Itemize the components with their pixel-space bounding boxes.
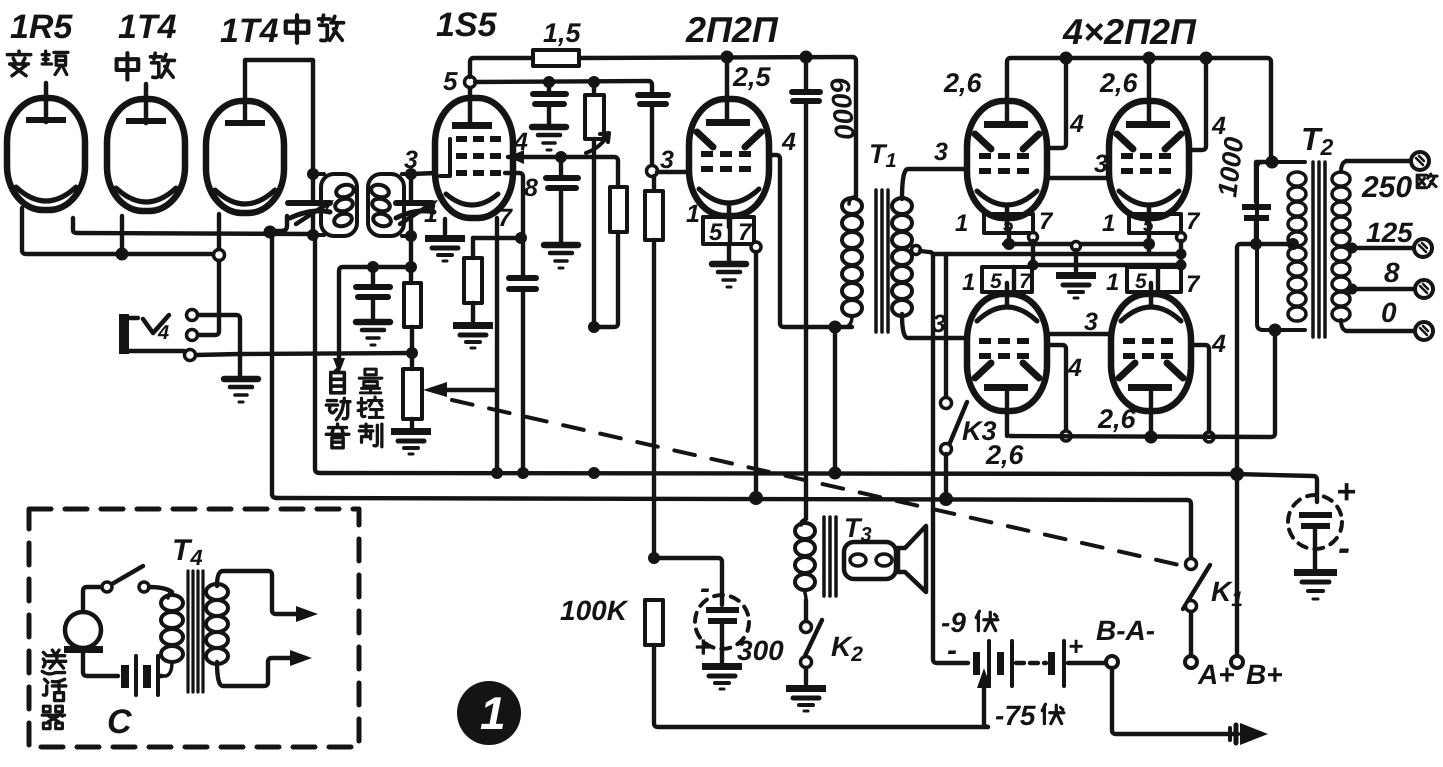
transformer T3 coil	[795, 519, 815, 600]
switch K3 riser	[944, 254, 948, 397]
socket box 5-7 2P2P	[703, 217, 754, 246]
pin circle TR pin7	[1177, 233, 1186, 242]
wire filament junction line3	[1033, 263, 1181, 267]
wire TR stem to line1	[1147, 229, 1151, 254]
capacitor AVC filter	[356, 267, 390, 320]
svg-text:7: 7	[738, 219, 753, 246]
svg-text:T1: T1	[869, 139, 897, 172]
jack contact 2	[187, 330, 198, 341]
svg-text:0: 0	[1381, 297, 1397, 328]
tube V7 2P2P TR	[1109, 101, 1189, 229]
dashed link volume to K1	[452, 400, 1188, 567]
wire T1 sec top to grids	[902, 169, 964, 199]
svg-text:4: 4	[1069, 110, 1084, 138]
wire AVC branch left	[339, 267, 411, 364]
svg-text:1: 1	[480, 687, 506, 739]
node dot B-V2	[116, 248, 129, 261]
wire center tap to filament line	[920, 251, 968, 663]
wire T4 sec bottom output	[217, 658, 292, 686]
node dot volume top	[588, 321, 600, 333]
terminal 125	[1414, 239, 1432, 257]
node dot T2 top	[1266, 156, 1279, 169]
pin circle 2P2P pin7	[751, 242, 761, 252]
ground pin4 cap	[544, 245, 578, 268]
resistor 1.5	[533, 50, 579, 66]
svg-text:1: 1	[1102, 210, 1115, 237]
ground potentiometer	[391, 428, 431, 454]
node dot cap1000 tap	[1250, 238, 1262, 250]
terminal 8	[1415, 280, 1433, 298]
svg-text:2П2П: 2П2П	[685, 9, 779, 50]
capacitor coupling C to 2P2P	[638, 95, 668, 165]
node dot TL pin7 line3	[1028, 260, 1039, 271]
wire T2 center tap	[1237, 244, 1293, 656]
tube V4 1S5	[435, 88, 513, 218]
wire BR pin4	[1194, 345, 1209, 432]
label -9伏	[941, 607, 998, 638]
wire battery to B-A- terminal	[1068, 661, 1105, 665]
socket box BR	[1127, 267, 1181, 293]
label 250欧	[1361, 171, 1437, 204]
wire BL plate stem	[1005, 390, 1009, 436]
wire pin7 resistor branch	[473, 236, 523, 240]
svg-text:1S5: 1S5	[436, 6, 498, 44]
svg-text:7: 7	[1186, 271, 1201, 298]
svg-text:2,6: 2,6	[1097, 404, 1137, 434]
switch mic contact right	[139, 582, 149, 592]
svg-text:1000: 1000	[1212, 135, 1249, 198]
ground 2P2P	[712, 264, 746, 287]
svg-text:1,5: 1,5	[543, 18, 582, 48]
tube V3 1T4	[206, 101, 284, 213]
transformer T3 core	[824, 517, 836, 596]
label 送话器	[42, 650, 66, 729]
svg-text:A+: A+	[1197, 659, 1235, 690]
wire grid jumper bottom	[1050, 332, 1110, 336]
svg-text:-75: -75	[995, 700, 1036, 731]
label 变频	[7, 51, 68, 76]
wire V3 plate to IF transformer	[245, 60, 313, 174]
wire T1 bottom to bus1	[833, 327, 837, 473]
battery C plates	[121, 656, 158, 695]
IF transformer primary trimmer C	[288, 174, 334, 235]
jack contact 3	[185, 350, 196, 361]
label AVC 自动音量控制	[326, 369, 383, 448]
tube V5 2P2P	[689, 99, 769, 227]
wire tap 0	[1346, 329, 1413, 333]
pin circle 2P2P grid	[647, 166, 658, 177]
wire TL stem to line1	[1007, 229, 1011, 244]
node dot C523 bus1	[517, 467, 529, 479]
wire pin5 to top bus	[470, 58, 533, 77]
wire 1S5 pin8	[505, 173, 523, 238]
node dot A-V3	[264, 226, 277, 239]
tube V2 1T4	[107, 84, 185, 211]
transformer T4 secondary	[206, 584, 228, 664]
ground 300 cap	[702, 663, 742, 689]
wire plate bus top	[1007, 58, 1271, 162]
svg-text:7: 7	[1039, 208, 1054, 235]
wire bus1 B+ line	[315, 237, 1317, 502]
IF secondary trimmer C	[396, 174, 438, 236]
speaker cone	[898, 526, 926, 592]
wire V2 bottom stem	[120, 216, 124, 250]
resistor grid leak R654	[645, 176, 663, 556]
wire mic to battery C	[83, 648, 118, 676]
wire K1 to A+	[1189, 612, 1193, 655]
wire filament junction line1	[1004, 242, 1151, 246]
transformer T1 primary	[839, 196, 862, 327]
arrow pot R594	[586, 133, 609, 153]
node dot B+ bus1	[1230, 467, 1244, 481]
node dot volume bus1	[588, 467, 600, 479]
node dot TL pin4 bus	[1060, 52, 1073, 65]
transformer T1 core	[876, 190, 888, 332]
wire screen bus y82	[475, 81, 652, 92]
svg-text:T4: T4	[172, 534, 203, 570]
svg-text:1T4: 1T4	[118, 8, 177, 46]
svg-text:5: 5	[1135, 270, 1147, 293]
node dot IF sec bottom	[405, 230, 417, 242]
svg-text:1: 1	[424, 200, 438, 228]
resistor AVC R1	[404, 283, 421, 369]
wire TL pin7 stub	[1031, 241, 1035, 265]
arrowhead wiper	[423, 382, 447, 397]
ground electrolytic	[1294, 569, 1337, 599]
svg-text:3: 3	[1094, 150, 1108, 178]
switch K2 blade	[803, 620, 822, 660]
wire filament junction line2	[933, 252, 1183, 256]
node dot TR stem bus	[1143, 52, 1156, 65]
IF transformer T winding W1	[313, 174, 357, 236]
node dot pin7 bus2	[749, 491, 763, 505]
wire grid jumper top	[1050, 176, 1108, 180]
tube V1 1R5	[7, 83, 85, 210]
svg-text:-9: -9	[941, 607, 966, 638]
svg-text:3: 3	[404, 146, 418, 174]
wire top bus to T1	[579, 57, 856, 196]
node dot cap545	[543, 76, 555, 88]
node dot pin4-cap	[555, 151, 567, 163]
pin circle mid ground	[1072, 242, 1081, 251]
wire filament line B	[22, 208, 213, 254]
jack J1 body	[119, 314, 129, 354]
capacitor 6000	[792, 57, 820, 519]
wire T4 sec top output	[217, 571, 298, 614]
terminal 250	[1411, 152, 1429, 170]
wire bottom plate line	[1010, 330, 1275, 437]
wire 1S5 pin7	[446, 218, 497, 473]
terminal B-A-	[1106, 656, 1118, 668]
svg-text:300: 300	[737, 635, 784, 666]
node dot TR pin7 line2	[1176, 249, 1187, 260]
wire 1S5 pin1 to ground	[443, 219, 447, 234]
node dot T1 bus1	[829, 467, 842, 480]
node dot IF pri bottom	[307, 229, 319, 241]
wire tap 125	[1350, 246, 1412, 250]
socket box5 TL	[984, 214, 1033, 236]
node dot IF sec top	[405, 168, 417, 180]
svg-text:4: 4	[1067, 354, 1082, 382]
svg-text:1R5: 1R5	[10, 8, 73, 46]
wire socket to ground	[727, 244, 731, 262]
terminal A+	[1185, 656, 1197, 668]
node dot plate	[721, 51, 734, 64]
svg-text:7: 7	[1019, 270, 1032, 293]
label 1T4中放	[220, 12, 344, 50]
svg-text:-: -	[1338, 527, 1350, 568]
wire tap 8	[1350, 287, 1413, 291]
wire 2P2P plate stem	[725, 57, 730, 121]
capacitor C523	[509, 238, 536, 473]
svg-text:7: 7	[498, 204, 513, 232]
switch mic blade	[112, 566, 143, 584]
wire TR pin7 stub	[1179, 241, 1183, 267]
ground output stage	[1056, 272, 1096, 298]
wire -75V tap riser	[984, 686, 988, 727]
ground R473	[453, 322, 493, 348]
svg-text:K2: K2	[831, 631, 863, 666]
node dot TR pin4 bus	[1200, 52, 1213, 65]
arrow output top	[296, 606, 318, 622]
svg-text:8: 8	[524, 174, 538, 202]
ground AVC cap	[356, 322, 390, 345]
wire bottom rail	[654, 645, 988, 727]
speaker magnet	[844, 542, 896, 579]
svg-text:-: -	[700, 572, 710, 605]
node dot TR line1	[1143, 238, 1155, 250]
svg-text:K3: K3	[962, 416, 997, 446]
label 中放	[117, 53, 175, 79]
wire mid ground stem	[1074, 250, 1078, 271]
socket box BL	[982, 267, 1032, 293]
node dot BR plate	[1145, 431, 1158, 444]
node dot tap8	[1347, 284, 1358, 295]
wire T1 sec bottom to grids	[902, 314, 964, 338]
switch K3 contact bottom	[941, 444, 952, 455]
jack label V4	[143, 315, 169, 344]
wire BL pin4	[1050, 345, 1066, 431]
electrolytic filter cap dashed circle	[1288, 495, 1342, 569]
wire TR pin4	[1191, 58, 1206, 150]
switch K1 blade	[1183, 565, 1210, 609]
wire V3 filament stem	[217, 214, 221, 249]
potentiometer volume R2	[403, 369, 422, 427]
svg-text:T2: T2	[1301, 121, 1334, 160]
svg-text:5: 5	[990, 270, 1002, 293]
svg-text:7: 7	[1186, 208, 1201, 235]
svg-text:4: 4	[157, 322, 169, 344]
svg-text:5: 5	[443, 66, 458, 96]
transformer T2 core	[1313, 162, 1325, 337]
svg-text:100K: 100K	[560, 595, 629, 626]
node dot 100K branch	[648, 552, 660, 564]
switch K2 contact bottom	[801, 657, 812, 668]
svg-text:4: 4	[513, 128, 528, 156]
switch K3 blade	[949, 402, 967, 445]
svg-text:C: C	[107, 703, 132, 741]
wire K2 to ground	[804, 668, 808, 684]
svg-text:B+: B+	[1246, 659, 1283, 690]
svg-text:3: 3	[660, 146, 674, 174]
pin circle 1S5 pin5	[465, 77, 476, 88]
switch K2 contact top	[801, 622, 812, 633]
switch K1 contact bottom	[1186, 601, 1197, 612]
wire K3 to bus2	[944, 454, 948, 498]
switch K3 contact top	[941, 398, 952, 409]
arrowhead pin4	[508, 150, 524, 164]
wire grid into 2P2P	[657, 170, 688, 174]
wire AVC chain down	[409, 236, 413, 283]
arrow output bottom	[290, 650, 312, 666]
capacitor 1000	[1242, 162, 1272, 244]
svg-text:1: 1	[962, 269, 975, 296]
wire T3 to K2	[804, 600, 808, 621]
node dot IF pri top	[307, 168, 319, 180]
transformer T2 primary	[1257, 162, 1306, 330]
node dot AVC-jack	[406, 347, 418, 359]
wire mic to switch	[83, 587, 101, 612]
pin circle V3 filament	[214, 250, 225, 261]
node dot res594	[588, 76, 600, 88]
electrolytic 300 dashed circle	[695, 595, 749, 662]
node dot center tap	[1287, 238, 1299, 250]
figure number circle 1	[457, 681, 521, 745]
svg-text:1T4: 1T4	[220, 12, 279, 50]
wire filament line A	[73, 218, 313, 234]
arrow into AVC label	[333, 358, 345, 374]
pin circle T1 center tap	[912, 246, 921, 255]
node dot K3 bus2	[939, 492, 953, 506]
wire tap 250	[1346, 159, 1409, 163]
svg-text:5: 5	[709, 219, 723, 246]
svg-text:-: -	[947, 634, 957, 667]
terminal 0	[1415, 322, 1433, 340]
tube V6 2P2P TL	[967, 101, 1047, 229]
IF transformer winding W2	[368, 174, 411, 236]
tube V9 2P2P BR	[1111, 283, 1191, 411]
wire pin7 to bus2	[754, 252, 758, 497]
wire switch to T4 primary	[149, 587, 172, 592]
node dot pin7 bus1	[491, 467, 503, 479]
svg-text:+: +	[1068, 631, 1083, 661]
dashed enclosure box	[29, 509, 359, 747]
transformer T4 primary	[161, 592, 183, 676]
svg-text:4: 4	[1211, 330, 1226, 358]
svg-text:+: +	[1336, 473, 1356, 511]
pin circle BR pin4	[1204, 432, 1214, 442]
wire jack tip to ground	[129, 315, 240, 377]
node dot TR pin7 line3	[1176, 260, 1187, 271]
tube V8 2P2P BL	[967, 283, 1047, 411]
node dot 6000 top	[800, 51, 813, 64]
svg-text:+: +	[694, 631, 712, 664]
terminal B+	[1231, 656, 1243, 668]
socket box5 TR	[1129, 214, 1181, 236]
svg-text:8: 8	[1384, 257, 1400, 288]
switch K1 contact top	[1186, 559, 1197, 570]
wire jack middle contact to V3	[197, 261, 219, 335]
node dot tap125	[1347, 243, 1358, 254]
node dot TL line1	[1003, 238, 1015, 250]
svg-text:2,6: 2,6	[1099, 68, 1139, 98]
svg-text:6000: 6000	[824, 76, 860, 141]
arrow output right	[1230, 723, 1268, 745]
pin circle BL pin4	[1061, 431, 1071, 441]
switch mic contact left	[102, 582, 112, 592]
wire battery to T4	[160, 674, 162, 678]
wire TR plate stem	[1147, 58, 1152, 121]
microphone	[64, 612, 103, 653]
ground K2	[786, 685, 826, 711]
svg-text:250: 250	[1361, 171, 1412, 204]
svg-text:B-A-: B-A-	[1096, 615, 1155, 646]
svg-text:4×2П2П: 4×2П2П	[1062, 11, 1197, 52]
ground screen cap	[532, 127, 566, 150]
svg-text:2,5: 2,5	[732, 62, 772, 92]
node dot AVC top	[405, 261, 417, 273]
wire TL pin4	[1050, 58, 1066, 148]
resistor 100K	[645, 600, 663, 645]
wire jack sleeve long line to AVC	[196, 353, 411, 355]
battery B plates	[1048, 641, 1064, 686]
ground jack	[224, 379, 258, 402]
wire branch to 300 cap	[654, 558, 722, 605]
svg-text:3: 3	[1084, 308, 1098, 336]
node dot T2 bottom	[1269, 324, 1282, 337]
resistor R618	[594, 187, 627, 327]
label -75伏	[995, 700, 1064, 731]
jack contact 1	[187, 310, 198, 321]
arrow -75V tap	[977, 668, 991, 688]
node dot pin8	[515, 232, 527, 244]
node dot cap branch	[367, 261, 379, 273]
wire battery dashed link	[1016, 661, 1046, 665]
battery A -9V plates	[973, 641, 1012, 686]
svg-text:3: 3	[934, 138, 948, 166]
svg-text:1: 1	[686, 200, 700, 228]
transformer T4 core	[188, 571, 203, 692]
wire B-A- to output arrow	[1112, 668, 1238, 734]
capacitor pin4 bypass	[546, 157, 578, 243]
wire 1S5 pin4	[508, 157, 618, 187]
svg-text:125: 125	[1366, 217, 1413, 248]
pin circle TL pin7	[1029, 233, 1038, 242]
node dot T1 bottom	[829, 321, 842, 334]
resistor R594	[585, 82, 604, 327]
svg-text:4: 4	[781, 128, 796, 156]
wire 2P2P pin4 screen	[772, 155, 852, 327]
wire BR plate stem	[1149, 390, 1153, 437]
resistor filament R473	[464, 238, 482, 321]
ground 1S5 pin1	[425, 235, 465, 261]
wire grid to 1S5 pin3	[411, 173, 436, 174]
svg-text:1: 1	[1106, 269, 1119, 296]
svg-text:2,6: 2,6	[943, 68, 983, 98]
transformer T2 secondary	[1332, 161, 1350, 331]
svg-text:1: 1	[955, 210, 968, 237]
wire V3 cathode down	[272, 216, 287, 498]
capacitor screen bypass	[533, 82, 566, 125]
transformer T1 secondary	[892, 198, 912, 316]
wire bus2 ground line	[277, 498, 1191, 559]
